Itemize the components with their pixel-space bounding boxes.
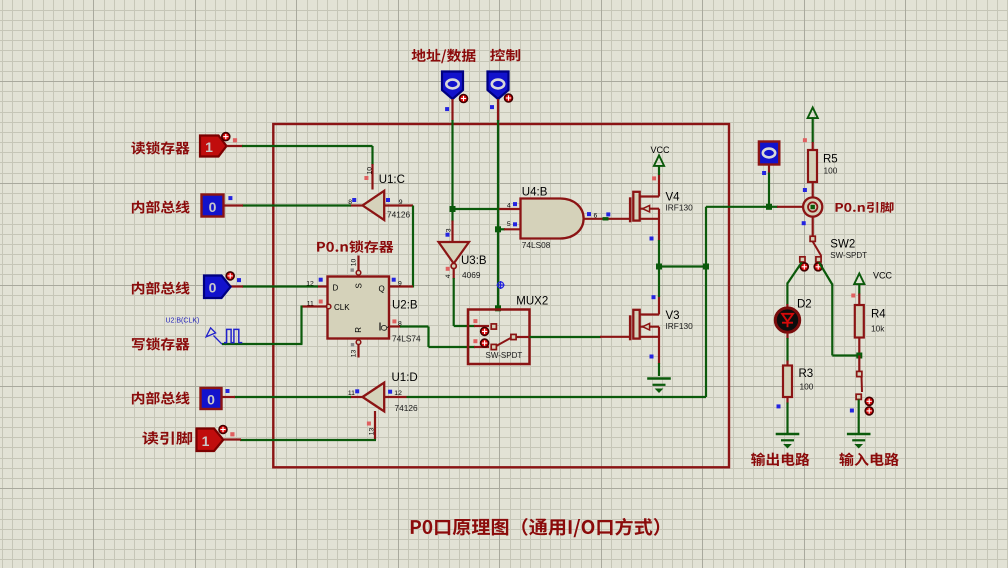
wire V4 drain to VCC [658,167,660,176]
wire pad to SW2 [812,217,814,237]
svg-text:IRF130: IRF130 [666,203,694,213]
wire U1:D input stub [384,396,406,398]
svg-text:U4:B: U4:B [522,187,548,199]
marker square U1:C pin10 [364,176,368,180]
pin R U2:B [356,340,361,345]
svg-text:U2:B: U2:B [392,300,418,312]
svg-text:9: 9 [398,280,402,287]
marker square V4 drain [652,176,656,180]
marker origin 地址/数据 [460,95,468,103]
wire 地址/数据 down [451,99,453,121]
svg-text:IRF130: IRF130 [666,321,694,331]
svg-text:U1:D: U1:D [392,372,418,384]
marker origin input switch 1 [865,397,873,405]
svg-text:4: 4 [445,274,452,278]
svg-text:10: 10 [367,167,374,175]
terminal 内部总线 3 logic 0 [201,388,222,409]
wire V3 drain up to node [658,267,660,298]
junction 控制 node [495,226,501,232]
junction terminal branch [766,204,772,210]
wire 控制 to MUX2 select [497,229,499,308]
label P0.n锁存器 [317,240,393,252]
svg-text:R: R [354,327,363,333]
svg-text:D: D [333,284,339,293]
svg-text:100: 100 [800,382,814,392]
svg-text:74126: 74126 [395,403,418,413]
svg-text:U3:B: U3:B [461,255,487,267]
svg-text:100: 100 [824,166,838,176]
svg-text:CLK: CLK [334,303,350,312]
marker square V3 source [650,355,654,359]
wire P0.n to pad [706,206,770,208]
marker square V3 drain [652,295,656,299]
terminal 读引脚 logic 1 [197,429,224,452]
svg-text:SW-SPDT: SW-SPDT [486,351,523,360]
marker origin 内部总线 2 [226,272,234,280]
wire to U4:B pin4 [453,208,500,210]
marker origin 控制 [505,94,513,102]
svg-text:MUX2: MUX2 [516,296,548,308]
svg-text:U2:B(CLK): U2:B(CLK) [166,317,200,324]
svg-text:13: 13 [351,350,358,358]
wire 控制 down [497,99,499,121]
wire V4 source down [658,240,660,268]
svg-text:R5: R5 [823,153,838,165]
power VCC R5 [808,108,818,119]
svg-text:VCC: VCC [651,145,671,155]
label 内部总线 2 [132,282,190,295]
svg-text:3: 3 [446,228,453,232]
marker square 内部总线 [228,196,232,200]
label 输出电路 [751,453,809,466]
svg-text:Q: Q [379,285,385,294]
marker origin MUX2 down [481,339,489,347]
title P0口原理图 [411,518,659,537]
marker square R4 top [851,294,855,298]
transistor V3 IRF130 [629,315,632,340]
wire terminal down [768,165,770,174]
pin MUX2 select [495,305,501,311]
marker origin MUX2 up [481,327,489,335]
svg-text:SW-SPDT: SW-SPDT [830,251,867,260]
wire VCC to R5 [812,117,814,143]
label 写锁存器 [132,337,190,350]
marker square U3:B pin4 [446,267,450,271]
LED D2 [775,308,799,332]
svg-text:V4: V4 [666,191,681,203]
marker square R5 top [803,138,807,142]
ground input [847,433,871,436]
wire 读锁存器 to U1:C enable [227,145,244,147]
svg-text:4: 4 [507,203,511,210]
marker square MUX2 up [473,319,477,323]
tri-state buffer U1:D [363,383,385,412]
switch MUX2 SW-SPDT [468,310,530,365]
marker square U3:B pin3 [446,233,450,237]
marker square MUX2 down [473,339,477,343]
wire U1:D enable from 读引脚 [374,411,376,440]
terminal 内部总线 pointed 0 [204,276,231,299]
wire D2 to R3 [786,332,788,339]
wire switch to ground [858,399,860,433]
svg-text:74LS08: 74LS08 [522,240,551,250]
wire P0.n down to U1:D input [407,396,707,398]
svg-text:0: 0 [207,392,215,408]
wire to U4:B pin5 [498,228,505,230]
marker square R3 bottom [777,404,781,408]
marker origin 读引脚 [219,426,227,434]
marker crosshair MUX2 [498,282,504,288]
terminal 控制 [488,72,509,100]
svg-text:1: 1 [205,139,213,155]
ground output [776,433,800,436]
svg-text:4069: 4069 [462,270,481,280]
wire U1:C output to 内部总线 terminal [350,204,363,206]
svg-text:74LS74: 74LS74 [392,334,421,344]
svg-text:74126: 74126 [387,210,410,220]
power VCC R4 [854,274,864,285]
switch input branch [858,356,860,372]
svg-text:SW2: SW2 [830,238,855,250]
wire 地址/数据 to U3:B input [451,209,453,222]
tri-state buffer U1:C [363,191,385,220]
wire SW2 left throw to D2 [787,262,801,283]
svg-text:0: 0 [209,199,217,215]
wire CLK from 写锁存器 [302,305,328,307]
svg-text:R3: R3 [799,368,814,380]
wire MUX2 common to V3 gate [516,336,531,338]
marker square input switch [850,409,854,413]
transistor V4 IRF130 [629,197,632,222]
marker square 地址/数据 [445,107,449,111]
svg-text:10: 10 [351,259,358,267]
flip-flop U2:B 74LS74 [328,277,390,339]
pad P0.n pin [803,197,822,216]
wire P0.n vertical [705,207,707,397]
terminal state 0 at P0.n [759,142,779,165]
svg-text:1: 1 [202,433,210,449]
label 内部总线 3 [132,392,190,405]
label 读引脚 [142,431,192,444]
label 输入电路 [839,453,899,466]
svg-text:6: 6 [594,213,598,220]
marker square 读引脚 [230,432,234,436]
svg-text:U1:C: U1:C [379,174,405,186]
marker square 控制 [490,105,494,109]
label 读锁存器 [131,141,189,154]
wire R5 to pad [812,182,814,198]
main border box [273,124,729,467]
wire R4 to junction [858,338,860,354]
svg-text:V3: V3 [666,310,680,322]
svg-text:10k: 10k [871,324,885,334]
svg-text:D2: D2 [797,299,812,311]
junction V4 source node [656,264,662,270]
wire U4:B output to V4 gate [584,218,629,220]
pin S U2:B [356,270,361,275]
wire U1:D output to 内部总线 3 [350,396,363,398]
svg-text:VCC: VCC [873,271,893,281]
svg-text:R4: R4 [871,309,886,321]
svg-text:5: 5 [507,221,511,228]
wire VCC to R4 [858,285,860,295]
resistor R5 [808,150,817,182]
resistor R3 [783,366,792,398]
terminal 读锁存器 logic 1 [200,136,227,157]
svg-text:Q: Q [380,325,389,331]
junction R4 switch node [856,353,862,359]
marker square 内部总线 3 [226,389,230,393]
power VCC V4 [654,155,664,166]
wire Qbar to MUX2 lower throw [389,325,401,327]
marker square 读锁存器 [233,138,237,142]
label 内部总线 [132,201,190,214]
terminal 内部总线 logic 0 [202,195,224,217]
label P0.n引脚 [836,202,894,213]
marker origin input switch 2 [865,407,873,415]
wire SW2 right throw to R4 node [819,262,832,284]
wire D input from 内部总线 [317,285,328,287]
marker origin SW2 right [814,263,822,271]
probe 写锁存器 pulse [206,328,216,337]
label 控制 [490,49,520,62]
AND gate U4:B 74LS08 [521,199,584,239]
svg-text:S: S [355,283,364,288]
marker square R5 bottom [803,188,807,192]
wire U1:C input from latch Q [384,204,413,206]
inverter U3:B 4069 [439,242,470,264]
ground V3 [647,377,671,380]
junction 地址/数据 node [450,206,456,212]
resistor R4 [855,305,864,338]
marker square terminal [762,171,766,175]
wire U3:B output to MUX2 upper throw [453,269,455,279]
marker square V4 source [650,237,654,241]
junction P0.n column [703,264,709,270]
marker square 内部总线 2 [237,278,241,282]
junction mark pin6 [603,217,609,220]
terminal 地址/数据 [442,72,463,100]
marker origin 读锁存器 [222,133,230,141]
switch SW2 SW-SPDT [810,236,815,241]
label 地址/数据 [412,49,476,63]
marker square pad bottom [802,221,806,225]
wire node to P0.n pin column [659,265,706,267]
svg-text:0: 0 [209,280,217,296]
wire R3 to ground [786,397,788,404]
wire V3 source to ground [658,363,660,376]
marker origin SW2 left [800,263,808,271]
